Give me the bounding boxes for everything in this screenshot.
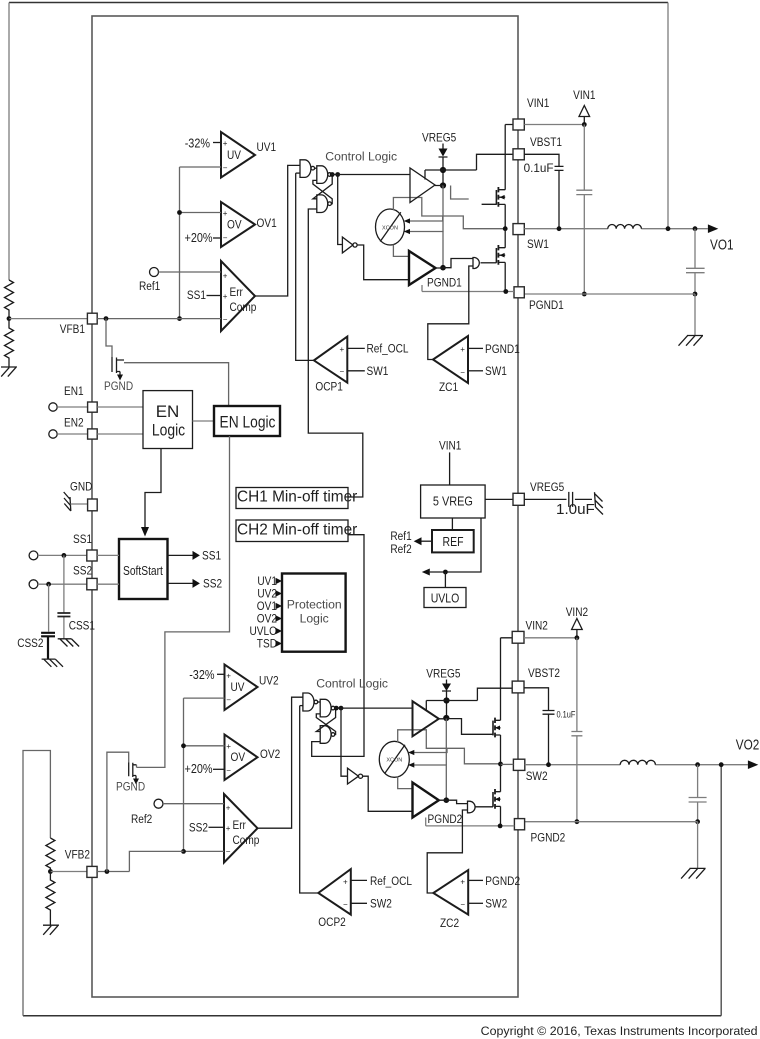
comparator ZC1 xyxy=(433,336,468,394)
box CH2 Min-off timer xyxy=(236,520,348,542)
wire VREG5 to VBST1 xyxy=(425,154,513,170)
node bus2-OV2 junction xyxy=(181,743,186,748)
wire SS2 to ErrComp2 + xyxy=(209,826,225,828)
capacitor C-OUT2 xyxy=(689,765,707,822)
wire OCP1 output to gate A1 xyxy=(296,173,314,360)
wire gate B2 output to driver 2 xyxy=(334,707,412,709)
gate NAND B1 xyxy=(317,166,328,184)
box SoftStart xyxy=(119,539,168,599)
node VFB2 divider junction xyxy=(48,869,53,874)
wire 5 VREG to UVLO xyxy=(430,518,481,572)
wire 5 VREG to REF xyxy=(451,518,453,530)
svg-text:−: − xyxy=(226,696,231,705)
wire +20% to OV1 - xyxy=(213,237,221,239)
svg-text:+: + xyxy=(223,272,228,281)
wire VREG5 to VBST2 xyxy=(426,688,512,700)
protection input UV2 xyxy=(257,587,282,601)
wire OCP2 - input xyxy=(351,902,367,904)
svg-text:VBST2: VBST2 xyxy=(528,666,560,680)
svg-text:Ref2: Ref2 xyxy=(390,542,411,556)
pin VIN1 xyxy=(513,119,524,130)
svg-text:SW2: SW2 xyxy=(370,897,392,911)
wire VIN2 internal bus xyxy=(501,638,513,764)
svg-text:VBST1: VBST1 xyxy=(530,135,562,149)
svg-text:Logic: Logic xyxy=(300,612,329,626)
svg-text:VREG5: VREG5 xyxy=(422,131,456,145)
protection input OV1 xyxy=(257,599,282,613)
node VFB2 inner junction xyxy=(105,869,110,874)
svg-text:SS1: SS1 xyxy=(187,288,206,302)
wire VFB1 to discharge FET xyxy=(106,319,112,357)
node SW1 internal xyxy=(503,226,508,231)
svg-text:−: − xyxy=(223,234,228,243)
protection input UVLO xyxy=(250,624,283,638)
wire VFB1 feedback line xyxy=(97,318,221,320)
wire discharge FET1 to EN logic xyxy=(124,363,229,406)
gate AND1 xyxy=(473,258,479,269)
svg-text:CH2 Min-off timer: CH2 Min-off timer xyxy=(237,522,357,539)
gate NAND C2 xyxy=(320,726,331,744)
svg-text:−: − xyxy=(340,367,345,376)
svg-text:UV: UV xyxy=(227,148,242,162)
svg-text:+: + xyxy=(223,292,228,301)
svg-text:VREG5: VREG5 xyxy=(530,480,564,494)
op-amp Err Comp 1 xyxy=(221,261,257,331)
capacitor C-VREG5 1.0uF xyxy=(524,492,592,507)
wire XCON2 upper arrow xyxy=(408,748,447,755)
svg-text:EN Logic: EN Logic xyxy=(220,412,276,431)
wire XCON1 top to SW staircase xyxy=(393,198,505,229)
ground (GND pin) xyxy=(64,492,71,511)
capacitor C-OUT1 xyxy=(686,229,705,294)
svg-text:UVLO: UVLO xyxy=(431,591,460,606)
gate AND2 xyxy=(468,801,476,813)
wire XCON1 upper arrow xyxy=(404,216,443,224)
wire ZC1 - input xyxy=(468,370,483,372)
svg-text:5 VREG: 5 VREG xyxy=(433,494,473,509)
pin SW1 xyxy=(513,224,524,235)
inductor L2 xyxy=(620,760,655,764)
svg-text:OV1: OV1 xyxy=(257,216,277,230)
supply VIN1 triangle xyxy=(573,88,596,125)
pin VREG5 xyxy=(513,493,524,505)
svg-text:SW1: SW1 xyxy=(527,237,549,251)
wire Ref2 to ErrComp2 + xyxy=(163,803,224,805)
wire +20% to OV2 - xyxy=(213,768,225,770)
svg-text:OV: OV xyxy=(231,750,246,764)
svg-text:PGND: PGND xyxy=(116,780,145,794)
node SS1 input circle xyxy=(29,551,38,560)
wire to inverter 1 xyxy=(338,175,343,245)
svg-text:Err: Err xyxy=(233,818,246,832)
svg-text:0.1uF: 0.1uF xyxy=(557,710,576,720)
svg-text:Copyright © 2016, Texas Instru: Copyright © 2016, Texas Instruments Inco… xyxy=(481,1024,758,1038)
wire VIN1 internal bus xyxy=(505,125,513,229)
node driver1 output xyxy=(440,182,446,188)
svg-text:Comp: Comp xyxy=(233,833,260,847)
node bus1-OV1 junction xyxy=(177,210,182,215)
comparator OV1 xyxy=(221,202,277,247)
node VIN1 cap junction xyxy=(582,122,587,127)
svg-text:SW1: SW1 xyxy=(367,364,389,378)
wire EN2 to pin xyxy=(57,433,87,435)
chip boundary rectangle xyxy=(92,16,518,997)
svg-text:VO1: VO1 xyxy=(710,238,734,254)
svg-text:+: + xyxy=(460,878,465,887)
svg-text:Ref1: Ref1 xyxy=(390,529,411,543)
wire CH2 timer to gate C2 xyxy=(312,535,364,757)
comparator OCP2 xyxy=(318,869,351,929)
wire ZC2 + input xyxy=(468,879,483,881)
wire OCP1 to gate A1 xyxy=(296,172,300,174)
arrow SoftStart SS2 output xyxy=(168,577,223,591)
svg-text:Control Logic: Control Logic xyxy=(316,676,388,690)
wire SS2 to pin xyxy=(38,583,87,585)
box CH1 Min-off timer xyxy=(236,488,348,509)
supply VIN2 triangle xyxy=(566,605,589,638)
svg-text:VFB2: VFB2 xyxy=(65,848,90,862)
ground (VFB2 divider) xyxy=(43,925,59,935)
node bus2-FB junction xyxy=(181,849,186,854)
driver U-LS2 (low-side gate driver) xyxy=(413,783,439,818)
wire VFB2 to discharge FET 2 xyxy=(107,752,129,871)
wire LS FET2 drain/source xyxy=(500,764,502,826)
wire PGND2 outside rail xyxy=(525,822,698,869)
node bus1-FB junction xyxy=(177,316,182,321)
pin EN1 xyxy=(88,402,98,412)
pin SS2 xyxy=(87,578,97,589)
wire CH1 timer to gate C1 xyxy=(308,209,363,497)
pin VFB1 xyxy=(87,313,97,324)
svg-text:1.0uF: 1.0uF xyxy=(556,501,595,518)
capacitor C-BST2 0.1uF xyxy=(524,688,555,765)
driver U-HS2 (high-side gate driver) xyxy=(413,701,439,736)
wire XCON2 bottom stub xyxy=(398,777,413,789)
wire AND1 output to LS FET gate xyxy=(481,262,497,264)
svg-text:PGND1: PGND1 xyxy=(485,342,520,356)
wire divider to VFB2 pin xyxy=(50,871,87,873)
XCON circle 2 xyxy=(379,741,409,777)
comparator OV2 xyxy=(225,735,281,781)
wire SS1 to pin xyxy=(38,554,87,556)
wire inverter 2 output to low driver xyxy=(363,776,413,811)
capacitor C-BST1 0.1uF xyxy=(524,154,563,228)
gate NAND C1 xyxy=(317,195,328,213)
svg-text:−: − xyxy=(223,315,228,324)
wire EN box to EN Logic box xyxy=(193,420,215,422)
wire LS FET1 drain/source xyxy=(504,229,506,292)
svg-text:UV: UV xyxy=(231,680,246,694)
transistor Q-HS2 xyxy=(493,718,501,738)
transistor Q-LS1 xyxy=(496,245,505,265)
inductor L1 xyxy=(608,225,642,229)
wire latch cross-couple 2 xyxy=(316,708,335,734)
wire VIN1 to 5 VREG xyxy=(449,452,451,485)
wire SW2 output xyxy=(525,764,748,766)
gate NAND A2 xyxy=(303,693,314,711)
comparator OCP1 xyxy=(314,337,347,394)
diode D-VREG5-1 xyxy=(422,131,456,186)
svg-text:EN1: EN1 xyxy=(64,384,84,398)
pin VBST1 xyxy=(513,149,524,160)
wire EN1 to pin xyxy=(57,406,87,408)
wire PGND2 inside rail xyxy=(426,818,515,826)
svg-text:Ref_OCL: Ref_OCL xyxy=(370,874,412,888)
node driver LS1 output xyxy=(440,265,446,271)
wire discharge FET2 drain xyxy=(136,765,138,768)
node VO2 cap junction xyxy=(695,762,700,767)
svg-text:TSD: TSD xyxy=(257,637,277,651)
wire ZC1 + input xyxy=(468,347,483,349)
wire PGND1 outside rail xyxy=(524,294,695,336)
ground (CSS2) xyxy=(42,659,63,667)
resistor R-FB2 lower xyxy=(46,872,55,926)
wire EN Logic to CH2 discharge FET xyxy=(137,436,230,767)
wire LS2 driver to AND gate xyxy=(439,800,468,803)
svg-text:CSS1: CSS1 xyxy=(69,619,95,633)
wire to UVLO box xyxy=(444,572,446,588)
svg-text:+: + xyxy=(343,878,348,887)
svg-text:Err: Err xyxy=(230,285,243,299)
wire LS1 driver to AND gate xyxy=(436,259,474,269)
wire latch cross-couple 1 xyxy=(313,175,332,204)
svg-text:EN: EN xyxy=(156,402,180,421)
node driver LS2 output xyxy=(444,797,450,803)
svg-text:OCP1: OCP1 xyxy=(315,379,343,393)
svg-text:UV1: UV1 xyxy=(257,140,277,154)
wire EN1 pin to EN box xyxy=(97,406,143,408)
svg-text:VIN1: VIN1 xyxy=(439,439,462,453)
wire ZC1 output to AND1 xyxy=(428,266,473,360)
svg-text:−: − xyxy=(223,164,228,173)
arrow VO1 output xyxy=(708,224,718,233)
svg-text:SS2: SS2 xyxy=(203,577,222,591)
capacitor C-IN1 xyxy=(576,125,592,295)
node VO1 loop junction xyxy=(666,226,671,231)
XCON circle 1 xyxy=(376,209,405,245)
pin VBST2 xyxy=(512,681,524,693)
wire OCP2 to gate A2 xyxy=(300,705,303,707)
svg-text:Ref1: Ref1 xyxy=(139,279,160,293)
wire Ref1 to ErrComp1 + xyxy=(159,271,222,273)
svg-text:−: − xyxy=(226,847,231,856)
protection input OV2 xyxy=(257,612,282,626)
svg-text:+20%: +20% xyxy=(185,230,213,245)
arrow REF output Ref1 Ref2 xyxy=(390,529,432,556)
arrow UVLO rail left xyxy=(422,569,430,576)
svg-text:PGND2: PGND2 xyxy=(428,812,463,826)
wire OCP1 - input xyxy=(347,370,365,372)
svg-text:+: + xyxy=(226,804,231,813)
node VO2 loop junction xyxy=(719,762,724,767)
svg-text:+: + xyxy=(340,345,345,354)
svg-text:OV: OV xyxy=(227,218,242,232)
svg-text:UV2: UV2 xyxy=(259,674,279,688)
ground (VFB1 divider) xyxy=(1,367,17,377)
box EN Logic (bold) xyxy=(143,391,193,449)
wire VO2 feedback loop (bottom) xyxy=(23,1015,721,1017)
svg-text:−: − xyxy=(226,766,231,775)
wire EN box to SoftStart arrow xyxy=(141,449,161,537)
protection input UV1 xyxy=(257,574,282,588)
node UVLO junction xyxy=(443,570,448,575)
node VIN2 cap junction xyxy=(575,635,580,640)
svg-text:VREG5: VREG5 xyxy=(426,667,460,681)
pin VFB2 xyxy=(87,866,97,877)
svg-text:SS1: SS1 xyxy=(73,532,92,546)
wire XCON1 lower arrow xyxy=(404,229,443,268)
op-amp Err Comp 2 xyxy=(224,794,260,863)
node SW1 bootstrap junction xyxy=(557,226,562,231)
svg-text:Comp: Comp xyxy=(230,300,257,314)
wire PGND1 inside rail xyxy=(422,285,514,292)
node VO1 cap junction xyxy=(693,226,698,231)
diode D-VREG5-2 xyxy=(426,667,460,719)
pin GND xyxy=(88,499,98,511)
wire AND2 output to LS FET gate xyxy=(475,806,493,808)
pin PGND1 xyxy=(514,287,524,298)
node VREG5 rail 1 xyxy=(440,167,446,173)
svg-text:Ref2: Ref2 xyxy=(131,812,152,826)
node EN2 input circle xyxy=(49,430,57,438)
ground (VO1 output cap) xyxy=(679,336,704,346)
wire OCP1 + input xyxy=(347,347,365,349)
svg-text:PGND1: PGND1 xyxy=(427,276,462,290)
svg-text:PGND2: PGND2 xyxy=(485,874,520,888)
node CSS2 junction xyxy=(46,582,51,587)
svg-text:XCON: XCON xyxy=(386,758,402,764)
wire SW1 output xyxy=(524,228,708,230)
comparator ZC2 xyxy=(433,870,468,930)
node PGND1 inside junction xyxy=(503,289,508,294)
node VFB1 inner junction xyxy=(104,316,109,321)
svg-text:VIN2: VIN2 xyxy=(526,619,549,633)
wire inverter 1 output to low driver xyxy=(357,245,410,280)
node PGND2 out junctions xyxy=(575,819,580,824)
svg-text:+: + xyxy=(226,824,231,833)
wire SS1 to ErrComp1 + xyxy=(207,295,222,297)
wire EN2 pin to EN box xyxy=(97,433,143,435)
wire divider to VFB1 pin xyxy=(9,318,87,320)
svg-text:SW2: SW2 xyxy=(485,897,507,911)
wire OCP2 output to gate A2 xyxy=(300,706,319,893)
protection input TSD xyxy=(257,637,282,651)
svg-text:VIN2: VIN2 xyxy=(566,605,589,619)
box 5 VREG xyxy=(421,485,486,518)
ground (VREG5 cap) xyxy=(595,492,604,514)
box REF xyxy=(432,530,474,552)
wire gate A2 to gate B2 xyxy=(318,701,320,703)
ground (CSS1) xyxy=(58,639,79,647)
box Protection Logic xyxy=(282,574,346,652)
wire gate B1 output to driver 1 xyxy=(331,174,410,176)
svg-text:SS2: SS2 xyxy=(73,564,92,578)
node Ref2 input circle xyxy=(154,799,163,808)
svg-text:XCON: XCON xyxy=(382,225,398,231)
svg-text:+20%: +20% xyxy=(185,761,213,776)
svg-text:ZC1: ZC1 xyxy=(439,380,458,394)
node SS2 input circle xyxy=(29,580,38,589)
wire SS2 pin to SoftStart xyxy=(97,583,119,585)
wire ZC2 output to AND2 xyxy=(427,810,467,893)
driver U-HS1 (high-side gate driver) xyxy=(410,168,435,203)
wire ErrComp1 output to gate A1 xyxy=(255,165,300,296)
svg-text:Logic: Logic xyxy=(152,421,186,440)
pin PGND2 xyxy=(514,819,524,830)
svg-text:Ref_OCL: Ref_OCL xyxy=(367,342,409,356)
box EN Logic (thin) xyxy=(214,406,280,436)
svg-text:OCP2: OCP2 xyxy=(318,915,346,929)
wire SW2 pin tie xyxy=(501,763,514,765)
arrow VO2 output xyxy=(748,760,758,769)
wire bootstrap stub 1 xyxy=(451,186,469,200)
svg-text:CSS2: CSS2 xyxy=(17,636,43,650)
node PGND2 inside junction xyxy=(498,824,503,829)
wire 5 VREG to VREG5 pin xyxy=(485,498,513,500)
inverter INV1 xyxy=(342,237,357,253)
pin EN2 xyxy=(88,429,98,439)
wire driver1 to HS FET gate xyxy=(435,186,496,205)
capacitor CSS1 xyxy=(57,555,70,638)
svg-text:−: − xyxy=(460,368,465,377)
wire VFB2 feedback line xyxy=(97,851,183,871)
resistor R-FB2 upper xyxy=(46,838,55,872)
wire driver2 to HS FET gate xyxy=(439,719,493,735)
svg-text:PGND2: PGND2 xyxy=(531,831,566,845)
svg-text:VIN1: VIN1 xyxy=(527,96,550,110)
svg-text:PGND1: PGND1 xyxy=(529,298,564,312)
ground (VO2 output cap) xyxy=(681,868,706,878)
wire ZC2 - input xyxy=(468,902,483,904)
svg-text:SW2: SW2 xyxy=(526,769,548,783)
comparator UV1 xyxy=(221,132,276,178)
svg-text:OV2: OV2 xyxy=(260,747,280,761)
wire to inverter 2 xyxy=(341,708,348,776)
svg-text:ZC2: ZC2 xyxy=(440,916,459,930)
svg-text:Protection: Protection xyxy=(287,597,342,611)
svg-text:VFB1: VFB1 xyxy=(60,322,85,336)
wire GND ground to pin xyxy=(70,503,87,505)
svg-text:PGND: PGND xyxy=(104,379,133,393)
pin SW2 xyxy=(513,759,524,770)
node EN1 input circle xyxy=(49,403,57,411)
arrow SoftStart SS1 output xyxy=(168,549,222,563)
wire FB bus 1 xyxy=(180,167,222,319)
gate NAND A1 xyxy=(300,160,311,178)
transistor Q-LS2 xyxy=(493,789,501,809)
svg-text:-32%: -32% xyxy=(185,136,211,151)
node SW2 bootstrap junction xyxy=(546,762,551,767)
svg-text:VO2: VO2 xyxy=(736,738,760,754)
svg-text:+: + xyxy=(460,345,465,354)
node VREG5 rail 2 xyxy=(443,697,449,703)
driver U-LS1 (low-side gate driver) xyxy=(409,251,436,285)
svg-text:0.1uF: 0.1uF xyxy=(524,162,554,175)
pin VIN2 xyxy=(512,631,524,643)
svg-text:REF: REF xyxy=(443,534,464,549)
wire SS1 pin to SoftStart xyxy=(97,554,119,556)
svg-text:−: − xyxy=(343,900,348,909)
node PGND1 out junctions xyxy=(582,292,587,297)
node CSS1 junction xyxy=(62,553,67,558)
wire VO1 feedback loop (top) xyxy=(9,2,668,4)
resistor R-FB1 upper xyxy=(5,280,14,319)
node gate B1 output junctions xyxy=(330,172,335,177)
capacitor CSS2 (bold) xyxy=(41,584,55,659)
wire VIN2 pin to supply xyxy=(524,637,577,639)
node driver2 output xyxy=(443,715,449,721)
svg-text:SS1: SS1 xyxy=(202,549,221,563)
